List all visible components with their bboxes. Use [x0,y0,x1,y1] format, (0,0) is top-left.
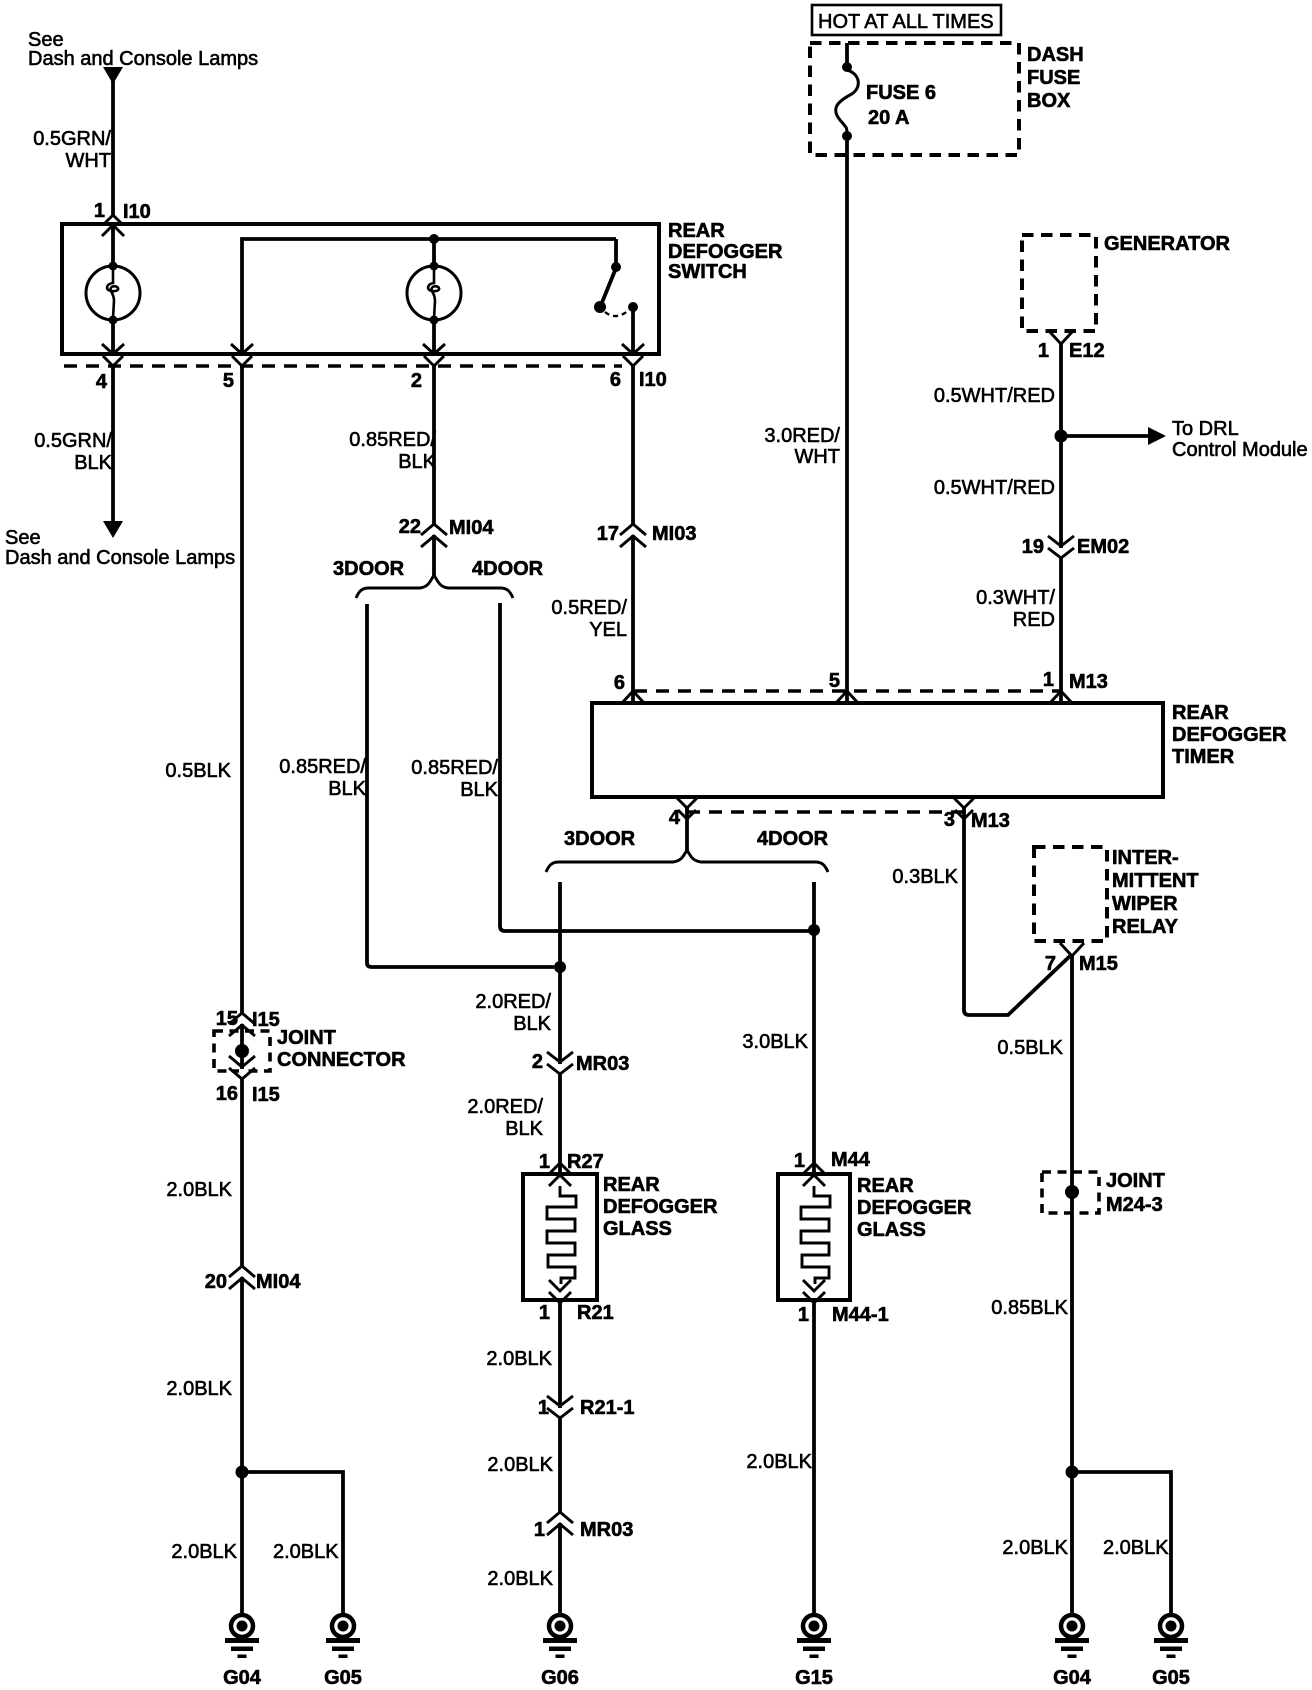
svg-text:WHT: WHT [794,446,840,468]
label 3DOOR (upper) [333,558,405,580]
fuse F6 [836,43,859,141]
label 2.0RED/BLK (above MR03) [475,991,551,1035]
svg-text:0.85RED/: 0.85RED/ [411,757,498,779]
svg-text:2.0BLK: 2.0BLK [171,1541,237,1563]
rear defogger glass box R27 [523,1174,597,1300]
connector pin 5 [223,344,253,392]
joint connector box (dashed) [214,1031,270,1071]
svg-text:REAR: REAR [668,220,725,242]
svg-text:BLK: BLK [460,779,498,801]
connector pin 4 [96,344,124,393]
svg-text:2.0BLK: 2.0BLK [487,1454,553,1476]
svg-text:GENERATOR: GENERATOR [1104,233,1230,255]
label REAR DEFOGGER GLASS (M44) [857,1175,972,1241]
node junction to G05 [236,1466,249,1479]
svg-text:YEL: YEL [589,619,627,641]
svg-text:1: 1 [1038,340,1049,362]
svg-text:1: 1 [798,1304,809,1326]
svg-text:3DOOR: 3DOOR [333,558,405,580]
wire 0.5WHT/RED generator to timer pin 1 [1059,344,1063,703]
svg-text:2: 2 [532,1051,543,1073]
node junction on bus [429,234,439,244]
svg-text:4DOOR: 4DOOR [472,558,544,580]
svg-text:0.5BLK: 0.5BLK [997,1037,1063,1059]
svg-text:3DOOR: 3DOOR [564,828,636,850]
svg-text:BLK: BLK [328,778,366,800]
svg-text:1: 1 [539,1151,550,1173]
svg-text:WHT: WHT [65,150,111,172]
svg-text:BOX: BOX [1027,90,1071,112]
label 0.85RED/BLK (pin 2) [349,429,436,473]
svg-text:20: 20 [205,1271,227,1293]
label 0.5WHT/RED (upper) [934,385,1055,407]
label 0.5BLK (pin 5) [165,760,231,782]
svg-text:5: 5 [829,670,840,692]
node junction 4door feed [808,924,820,936]
note: To DRL Control Module [1172,418,1308,461]
connector dashed line M13 (bottom) [687,810,964,813]
svg-text:M13: M13 [1069,671,1108,693]
svg-text:4: 4 [96,371,108,393]
label 2.0BLK (below R21-1) [487,1454,553,1476]
ground G05 (right) [1152,1615,1190,1689]
svg-text:15: 15 [216,1008,238,1030]
svg-text:MI04: MI04 [256,1271,301,1293]
svg-text:REAR: REAR [603,1174,660,1196]
svg-text:4DOOR: 4DOOR [757,828,829,850]
label 0.5BLK (M15) [997,1037,1063,1059]
svg-text:1: 1 [94,200,105,222]
svg-text:0.5WHT/RED: 0.5WHT/RED [934,477,1055,499]
svg-text:0.5GRN/: 0.5GRN/ [33,128,111,150]
svg-text:0.85BLK: 0.85BLK [991,1297,1068,1319]
label FUSE 6 20 A [866,82,936,129]
wire 0.5GRN/WHT to switch pin 1 [111,78,115,224]
connector pin 6 I10 [610,344,667,391]
label 0.5RED/YEL [551,597,627,641]
svg-text:INTER-: INTER- [1112,847,1179,869]
svg-text:2.0BLK: 2.0BLK [1002,1537,1068,1559]
connector pin 1 R21 [539,1280,614,1324]
svg-text:M44: M44 [831,1149,871,1171]
label 2.0BLK (left upper) [166,1179,232,1201]
heater element M44 [801,1186,830,1284]
label REAR DEFOGGER TIMER [1172,702,1287,768]
connector pin 1 R27 [539,1151,604,1186]
svg-text:I10: I10 [123,201,151,223]
svg-text:I15: I15 [252,1009,280,1031]
dash fuse box (dashed) [810,43,1019,155]
rear defogger timer box [592,703,1163,797]
svg-text:DASH: DASH [1027,44,1084,66]
wire 0.85RED/BLK 3door branch [367,604,554,967]
svg-text:M13: M13 [971,810,1010,832]
svg-text:TIMER: TIMER [1172,746,1235,768]
brace split 3door/4door (upper) [356,575,513,598]
label 2.0BLK (above G06) [487,1568,553,1590]
connector pin 7 M15 [1045,943,1118,975]
connector pin 2 MR03 [532,1051,629,1075]
label 2.0BLK (G05 left) [273,1541,339,1563]
svg-text:MR03: MR03 [576,1053,629,1075]
svg-text:CONNECTOR: CONNECTOR [277,1049,406,1071]
wire 0.5BLK switch pin 5 down [240,366,244,1614]
heater element R27 [547,1186,576,1284]
svg-text:WIPER: WIPER [1112,893,1178,915]
label HOT AT ALL TIMES [812,5,1001,35]
svg-text:G05: G05 [1152,1667,1190,1689]
svg-text:0.5RED/: 0.5RED/ [551,597,627,619]
label 2.0RED/BLK (below MR03) [467,1096,543,1140]
label JOINT M24-3 [1106,1170,1165,1216]
label JOINT CONNECTOR [277,1027,406,1071]
svg-text:1: 1 [794,1150,805,1172]
connector timer pin 5 [829,670,858,703]
label 0.85RED/BLK (4door) [411,757,498,801]
lamp (illumination) in switch [86,262,140,325]
svg-text:2.0BLK: 2.0BLK [487,1568,553,1590]
label 2.0BLK (G04 left) [171,1541,237,1563]
wire 0.5BLK M15 down [1070,956,1074,1614]
wire switch contact to pin 6 [631,308,635,354]
ground G04 (left) [223,1615,262,1689]
svg-text:2: 2 [411,370,422,392]
label 0.5GRN/BLK [34,430,112,474]
connector pin 1 M44 [794,1149,871,1186]
connector pin 1 M44-1 [798,1280,889,1326]
connector pin 22 MI04 [399,516,495,547]
label 2.0BLK (G15) [746,1451,812,1473]
arrow from Dash and Console Lamps [103,67,123,84]
wire 0.5GRN/BLK from switch pin 4 [111,366,115,524]
svg-text:I15: I15 [252,1084,280,1106]
ground G04 (right) [1053,1615,1092,1689]
ground G05 (left) [324,1615,362,1689]
svg-text:GLASS: GLASS [857,1219,926,1241]
svg-text:5: 5 [223,370,234,392]
label 3.0BLK [742,1031,808,1053]
svg-text:16: 16 [216,1083,238,1105]
wire timer pin 3 to wiper relay [964,808,1070,1015]
label 0.85RED/BLK (3door) [279,756,366,800]
node junction to DRL [1055,430,1068,443]
svg-text:JOINT: JOINT [1106,1170,1165,1192]
svg-text:2.0BLK: 2.0BLK [273,1541,339,1563]
svg-text:HOT AT ALL TIMES: HOT AT ALL TIMES [818,11,994,33]
connector dashed line I10 [64,364,622,367]
wire 0.85RED/BLK switch pin 2 to MI04 [432,366,436,577]
connector pin 1 E12 [1038,331,1105,362]
connector pin 1 MR03 (lower) [534,1512,633,1541]
svg-text:R27: R27 [567,1151,604,1173]
svg-text:1: 1 [1043,669,1054,691]
svg-text:2.0RED/: 2.0RED/ [475,991,551,1013]
label INTERMITTENT WIPER RELAY [1112,847,1199,938]
svg-text:1: 1 [538,1397,549,1419]
svg-text:RELAY: RELAY [1112,916,1179,938]
svg-text:MI03: MI03 [652,523,696,545]
svg-text:4: 4 [669,807,681,829]
label 0.85BLK [991,1297,1068,1319]
wire 2.0BLK R21 down [558,1300,562,1614]
svg-text:JOINT: JOINT [277,1027,336,1049]
svg-text:2.0RED/: 2.0RED/ [467,1096,543,1118]
svg-text:DEFOGGER: DEFOGGER [857,1197,972,1219]
svg-text:6: 6 [610,369,621,391]
svg-text:1: 1 [539,1302,550,1324]
connector pin 17 MI03 [597,523,697,547]
svg-text:REAR: REAR [1172,702,1229,724]
svg-text:EM02: EM02 [1077,536,1129,558]
connector timer pin 6 [614,672,644,703]
label 3DOOR (lower) [564,828,636,850]
svg-text:6: 6 [614,672,625,694]
switch contact (movable blade) [594,262,638,316]
svg-text:SWITCH: SWITCH [668,261,747,283]
svg-text:0.5GRN/: 0.5GRN/ [34,430,112,452]
connector timer pin 1 M13 [1043,669,1108,703]
label 2.0BLK (G04 right) [1002,1537,1068,1559]
svg-text:R21-1: R21-1 [580,1397,634,1419]
svg-text:BLK: BLK [513,1013,551,1035]
connector pin 15 I15 [216,1008,280,1036]
svg-text:2.0BLK: 2.0BLK [486,1348,552,1370]
label 2.0BLK (below R21) [486,1348,552,1370]
svg-text:BLK: BLK [74,452,112,474]
svg-text:M15: M15 [1079,953,1118,975]
ground G06 [541,1615,579,1689]
wire arrow To DRL Control Module [1061,427,1166,445]
brace split 3door/4door (lower) [546,850,828,872]
svg-text:G04: G04 [1053,1667,1092,1689]
svg-text:1: 1 [534,1519,545,1541]
wire timer pin 4 to brace [685,808,689,852]
wire 0.5RED/YEL switch pin 6 to timer pin 6 [631,366,635,703]
svg-text:0.85RED/: 0.85RED/ [279,756,366,778]
label 0.5WHT/RED (lower) [934,477,1055,499]
wire lamp2 leads [432,239,436,354]
wire branch to G05 [242,1472,343,1614]
svg-text:R21: R21 [577,1302,614,1324]
svg-text:G06: G06 [541,1667,579,1689]
svg-text:MI04: MI04 [449,517,494,539]
label DASH FUSE BOX [1027,44,1084,112]
svg-text:2.0BLK: 2.0BLK [746,1451,812,1473]
svg-text:BLK: BLK [398,451,436,473]
wire 3.0RED/WHT fuse to timer pin 5 [845,139,849,703]
wire 2.0RED/BLK 3door to defogger glass [558,882,562,1176]
svg-text:G04: G04 [223,1667,262,1689]
svg-text:19: 19 [1022,536,1044,558]
connector pin 1 R21-1 [538,1396,635,1419]
svg-text:17: 17 [597,523,619,545]
svg-text:0.85RED/: 0.85RED/ [349,429,436,451]
svg-text:MR03: MR03 [580,1519,633,1541]
note: See Dash and Console Lamps (top) [28,29,258,70]
svg-text:7: 7 [1045,953,1056,975]
svg-text:M44-1: M44-1 [832,1304,889,1326]
joint M24-3 box (dashed) [1042,1172,1099,1213]
connector pin 2 [411,344,445,392]
lamp (indicator) in switch [407,262,461,325]
wire 2.0BLK M44-1 to G15 [812,1300,816,1614]
svg-text:DEFOGGER: DEFOGGER [1172,724,1287,746]
svg-text:0.5WHT/RED: 0.5WHT/RED [934,385,1055,407]
label REAR DEFOGGER GLASS (R27) [603,1174,718,1240]
label 2.0BLK (G05 right) [1103,1537,1169,1559]
label 2.0BLK (left lower) [166,1378,232,1400]
connector pin 19 EM02 [1022,536,1130,558]
label 0.3WHT/RED [976,587,1055,631]
svg-text:3.0BLK: 3.0BLK [742,1031,808,1053]
connector pin 1 I10 [94,200,151,236]
connector timer pin 3 M13 [944,797,1010,832]
svg-text:FUSE 6: FUSE 6 [866,82,936,104]
label REAR DEFOGGER SWITCH [668,220,783,283]
svg-text:22: 22 [399,516,421,538]
svg-text:Dash and Console Lamps: Dash and Console Lamps [28,48,258,70]
svg-text:REAR: REAR [857,1175,914,1197]
node junction 3door feed [554,961,566,973]
rear defogger glass box M44 [778,1174,850,1300]
svg-text:20 A: 20 A [868,107,910,129]
arrow to Dash and Console Lamps [103,521,123,538]
svg-text:RED: RED [1013,609,1055,631]
svg-text:2.0BLK: 2.0BLK [1103,1537,1169,1559]
svg-text:To DRL: To DRL [1172,418,1239,440]
svg-text:FUSE: FUSE [1027,67,1080,89]
svg-text:DEFOGGER: DEFOGGER [603,1196,718,1218]
svg-text:DEFOGGER: DEFOGGER [668,241,783,263]
generator box (dashed) [1022,235,1096,331]
svg-text:G05: G05 [324,1667,362,1689]
svg-text:See: See [5,527,41,549]
svg-text:G15: G15 [795,1667,833,1689]
connector dashed line M13 (top) [634,689,1061,692]
connector pin 16 I15 [216,1056,280,1106]
svg-text:E12: E12 [1069,340,1105,362]
svg-text:Control Module: Control Module [1172,439,1308,461]
svg-text:M24-3: M24-3 [1106,1194,1163,1216]
label 3.0RED/WHT [764,425,840,468]
wire 0.85RED/BLK 4door branch [500,603,812,931]
wire branch to G05 right [1072,1472,1171,1614]
svg-text:MITTENT: MITTENT [1112,870,1199,892]
label 0.5GRN/WHT [33,128,111,172]
label 4DOOR (lower) [757,828,829,850]
wire lamp1 leads [111,224,115,354]
node junction to G05 right [1066,1466,1079,1479]
svg-text:BLK: BLK [505,1118,543,1140]
svg-text:Dash and Console Lamps: Dash and Console Lamps [5,547,235,569]
wire internal bus [242,239,616,354]
wire 3.0BLK 4door to defogger glass [812,882,816,1176]
ground G15 [795,1615,833,1689]
label GENERATOR [1104,233,1230,255]
label 4DOOR (upper) [472,558,544,580]
svg-text:2.0BLK: 2.0BLK [166,1378,232,1400]
svg-text:3.0RED/: 3.0RED/ [764,425,840,447]
rear defogger switch box [62,224,659,354]
intermittent wiper relay box (dashed) [1034,847,1107,941]
svg-text:2.0BLK: 2.0BLK [166,1179,232,1201]
svg-text:0.3BLK: 0.3BLK [892,866,958,888]
note: See Dash and Console Lamps (bottom) [5,527,235,569]
label 0.3BLK [892,866,958,888]
connector timer pin 4 [669,797,698,829]
svg-text:0.3WHT/: 0.3WHT/ [976,587,1055,609]
wire bus drop to switch contact [614,239,618,265]
svg-text:0.5BLK: 0.5BLK [165,760,231,782]
svg-text:GLASS: GLASS [603,1218,672,1240]
connector pin 20 MI04 [205,1266,302,1293]
svg-text:I10: I10 [639,369,667,391]
